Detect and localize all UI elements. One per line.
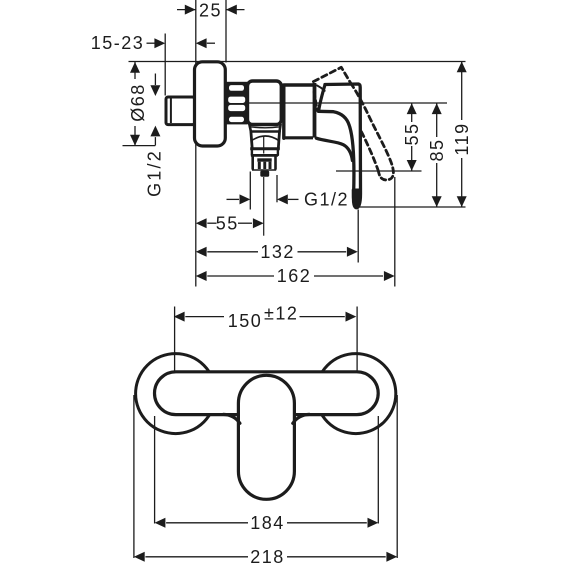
dim 184 left extension [154,416,156,524]
outlet upper band sides [249,125,280,132]
dim 85 line lower [436,163,438,207]
outlet axis line upper [263,136,265,154]
outlet band bottom line [251,130,280,132]
outlet dome arc [251,136,279,141]
outlet thread [251,156,276,170]
lever left slant edge [319,85,325,112]
lever pivot hinge arc [317,85,325,90]
dim 150 left extension [174,307,176,372]
pipe axis / 55-85 top extension line [226,102,447,104]
dim 55h right arrow [253,218,264,228]
dim 119 line upper [461,62,463,121]
mixer body bar front view [155,372,379,415]
dim 162 line right [314,275,383,277]
dim 132 right extension [357,210,359,263]
dim 25 left tail [177,9,196,11]
dim 15-23 right tail [207,42,215,44]
svg-text:132: 132 [260,242,295,262]
lever handle solid [318,84,360,208]
dim 184 line right [287,522,367,524]
outlet thread left extension [249,172,251,210]
svg-text:85: 85 [427,138,447,161]
dim 15-23 left tail [147,42,155,44]
dim 218 right line [287,556,386,558]
dim 184 right extension [377,416,379,524]
top extension line y61.5 [129,61,466,63]
dim 150 line left [185,316,224,318]
outlet tip [260,171,269,177]
G12 left lower tail [154,137,156,145]
G12 left up arrow [150,126,160,137]
cartridge housing bottom [284,136,313,139]
svg-text:119: 119 [452,122,472,155]
dim 55h line left [207,222,216,224]
pipe axis line across body [249,102,281,104]
right escutcheon circle [316,354,396,434]
G12 dim left tail [227,198,240,200]
dim 15-23 left arrow [154,38,165,48]
svg-text:G1/2: G1/2 [304,190,349,210]
G12 left down arrow [150,85,160,96]
raised handle top dashed [313,67,350,82]
dim 218 line left [145,556,248,558]
outlet flange line [250,147,280,150]
dim 68 line lower [134,126,136,146]
outlet upper band curve [250,127,280,128]
dim 68 bottom extension [123,145,156,147]
svg-text:55: 55 [216,213,239,233]
dim 162 right arrow [384,271,395,281]
valve body [248,81,282,125]
dim 119 bottom arrow [457,196,467,207]
dim 218 left arrow [134,552,145,562]
raised handle tip dashed [379,168,394,180]
G12 left upper tail [154,74,156,86]
dim 85 top arrow [432,103,442,114]
dim 68 line upper [134,62,136,79]
dim 55v top arrow [407,103,417,114]
dim 55v line upper [411,103,413,122]
dim 119 top arrow [457,62,467,73]
raised handle outer edge dashed [351,83,393,168]
svg-text:55: 55 [402,122,422,145]
svg-text:25: 25 [199,1,222,21]
cartridge dome cap curve [316,138,352,160]
dim 218 right extension [396,395,398,558]
svg-text:±12: ±12 [264,303,298,323]
handle base [313,83,317,138]
dim 132 line left [207,251,258,253]
left escutcheon circle [136,354,216,434]
dim 150 line right [300,316,345,318]
dim 132 right arrow [347,247,358,257]
dim 162 left arrow [196,271,207,281]
dim 85 bottom arrow [432,196,442,207]
dim 25 left arrow [185,5,196,15]
G12 dim right arrow [277,194,288,204]
outlet thread right extension [276,175,278,202]
dim 68 bottom arrow [130,135,140,146]
svg-text:218: 218 [250,547,285,567]
raised handle inner edge dashed [361,131,379,172]
svg-text:15-23: 15-23 [91,33,145,53]
dim 218 right arrow [386,552,397,562]
escutcheon side view [195,62,226,146]
dim 184 line left [166,522,248,524]
dim 150 left arrow [174,312,185,322]
dim 68 top arrow [130,62,140,73]
dim 55v line lower [411,146,413,171]
svg-text:184: 184 [250,513,285,533]
bar-handle fillet left [224,414,240,423]
G12 dim left arrow [240,194,251,204]
dim 132 line right [298,251,347,253]
dim 25 right tail [226,9,245,11]
nipple collar line [170,99,172,124]
dim 184 right arrow [368,518,379,528]
dim 15-23 right arrow [196,38,207,48]
outlet neck sides [252,149,278,155]
wall supply nipple [166,97,195,125]
dim 55h line right [238,222,252,224]
dim 132 left arrow [196,247,207,257]
G12 dim right tail [288,198,299,200]
dim 55v bottom extension [336,170,422,172]
bar-handle fillet right [293,414,309,423]
outlet axis extension down [263,177,265,236]
dim 218 left extension [133,395,135,558]
dim 162 right extension [394,177,396,287]
dim 184 left arrow [155,518,166,528]
svg-text:162: 162 [277,266,312,286]
lever grip dark tip [353,190,360,206]
cartridge housing top-left [284,85,313,138]
handle capsule front view [238,375,294,499]
raised handle pivot dashes [314,92,317,111]
svg-text:Ø68: Ø68 [128,83,148,122]
escutcheon right extension line [225,0,227,63]
15-23 extension line [164,34,166,96]
dim 162 line left [207,275,274,277]
union nut bushing [226,82,248,125]
dim 85 line upper [436,103,438,137]
wall reference line [195,0,197,287]
bottom extension line y207 [358,206,466,208]
outlet dome sides [251,132,280,149]
dim 25 right arrow [226,5,237,15]
dim 55h left arrow [196,218,207,228]
svg-text:G1/2: G1/2 [145,149,165,197]
outlet neck bottom line [251,154,278,157]
svg-text:150: 150 [228,311,263,331]
dim 119 line lower [461,158,463,207]
dim 150 right arrow [346,312,357,322]
dim 150 right extension [356,307,358,372]
dim 55v bottom arrow [407,160,417,171]
